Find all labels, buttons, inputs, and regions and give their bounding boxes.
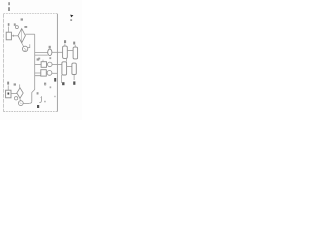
valve V1 center line [21,30,23,43]
feed line to heater H1 [35,64,41,66]
faint mark above return hook [44,84,46,85]
label 18 (top right of valve V1) [24,26,27,28]
figure label dot [70,19,72,21]
tick on wire [12,35,14,37]
label 40 (below T4) [73,81,75,84]
sheet header rotated text [8,2,10,11]
main bus vertical [32,34,35,101]
label 30 (above pump P2) [49,46,51,48]
actuator circle on valve V2 [14,97,17,100]
dot below P4 [50,86,52,88]
tank T1 stub [64,43,66,46]
block B1 (top-left source) [6,32,11,40]
valve V2 stub up [19,84,21,88]
label 44 (below H2) [44,83,46,86]
pump P4 (row-2 circle) [47,71,52,76]
wire T1 to T2 [67,50,73,52]
pump P2 (vertical oval) [48,49,52,56]
label 14 (right of label 12) [14,23,16,25]
stub from label to block B1 [8,27,10,33]
pump P1 outlet stub [28,44,30,47]
heater H2 (row-2 block) [41,70,47,76]
drawing frame (dashed boundary) [4,14,58,112]
pump P5 (bottom circle) [18,101,23,106]
stub from label to block B2 [7,85,9,90]
return hook (stream arrow) [39,96,41,102]
valve V2 (bottom diamond) [17,88,23,98]
pump P5 inner mark [20,103,22,104]
wire valve V1 bottom to pump P1 [22,43,24,47]
label 36 (above tank T2) [73,42,75,45]
pump P1 (circle below valve) [22,46,27,51]
pump P1 inner mark [24,48,26,50]
block B2 inner dot [8,93,10,95]
label 26 (below twin lines) [37,58,40,60]
faint mark upper bottom-right [54,96,56,97]
label above pump P3 [49,57,51,59]
label 34 (above tank T1) [64,40,66,43]
label 52 (right of bus bottom) [37,92,39,94]
label 24 (above heater H1) [38,58,40,60]
tank T1 (upper-left cylinder) [63,46,68,58]
wire pump P3 to tank T3 [52,64,62,66]
block B2 (bottom-left source) [6,90,11,98]
wire pump P5 outlet right [23,103,30,105]
label 50 (above valve V2) [14,83,16,85]
wire pump P4 outlet [52,72,57,74]
tank T4 (lower-right cylinder) [72,63,76,74]
tank T3 (lower-left cylinder) [62,62,67,75]
drain stub below T4 [73,75,75,81]
valve V1 (tall diamond) [18,29,25,43]
tick on return hook [40,96,41,98]
twin feed lines to pump P2 [35,53,48,56]
stub above heater H1 [42,60,44,62]
wire B1 to valve V1 [11,35,18,37]
twin feed lines to heater H2 [35,73,41,76]
label 16 (above valve V1) [21,18,23,20]
tank T2 stub [74,45,76,47]
heater H1 (row-1 block) [41,62,46,68]
tank T2 (upper-right cylinder) [73,47,78,59]
wire valve V2 to pump P5 [19,98,22,101]
label 54 (below return hook) [37,105,39,108]
wire B2 to valve V2 [11,93,17,95]
drain stub below T3 [61,75,63,83]
stub T1 to T3 [65,58,67,61]
label 12 (above block B1) [8,23,10,26]
wire T3 to T4 [67,66,72,68]
wire valve V1 right to main bus [25,33,34,35]
figure label arrow (top right) [70,15,73,18]
bus bottom curl [30,101,32,103]
label 46 (right of P4 outlet) [54,78,56,82]
label 48 (above block B2) [7,82,9,85]
pump P3 (row-1 circle) [48,62,53,67]
small blob near bottom center [44,101,46,103]
wire pump P2 to tank T1 [52,51,63,53]
label 42 (below T3) [62,82,64,85]
actuator circle on valve V1 [15,26,18,29]
